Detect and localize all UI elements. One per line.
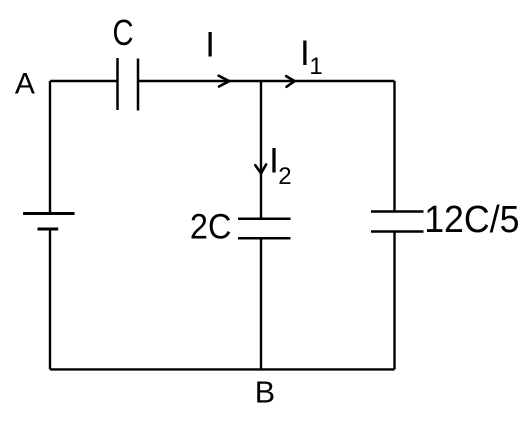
svg-text:A: A <box>15 67 35 100</box>
current arrow I <box>219 76 230 87</box>
capacitor C1 plates <box>118 58 139 111</box>
svg-text:I: I <box>205 26 215 65</box>
wire bottom segment <box>50 368 395 370</box>
battery V1 <box>23 214 75 230</box>
svg-text:I: I <box>300 34 310 73</box>
label I1 <box>300 34 323 80</box>
label I2 <box>269 141 291 190</box>
current arrow I1 <box>286 76 295 87</box>
svg-text:2C: 2C <box>190 207 232 246</box>
wire top-left segment (A corner to capacitor C left plate) <box>50 80 118 82</box>
wire top segment (capacitor C right plate to top-right corner) <box>138 80 395 82</box>
wire middle vertical lower (2C bottom plate to bottom junction) <box>260 238 262 369</box>
wire left vertical lower (battery bottom plate to bottom-left corner) <box>49 229 51 369</box>
wire middle vertical upper (top junction down to 2C top plate) <box>260 81 262 219</box>
svg-text:C: C <box>113 12 134 53</box>
svg-text:B: B <box>255 376 275 410</box>
wire right vertical upper (top-right corner down to 12C/5 top plate) <box>393 81 395 212</box>
current arrow I2 <box>255 165 266 174</box>
capacitor 2C plates <box>238 219 291 239</box>
svg-text:2: 2 <box>278 163 291 190</box>
svg-text:1: 1 <box>309 53 322 80</box>
svg-text:12C/5: 12C/5 <box>424 199 519 241</box>
wire left vertical upper (A corner down to battery top plate) <box>49 81 51 214</box>
wire right vertical lower (12C/5 bottom plate to bottom-right corner) <box>393 232 395 370</box>
capacitor 12C/5 plates <box>371 212 424 232</box>
